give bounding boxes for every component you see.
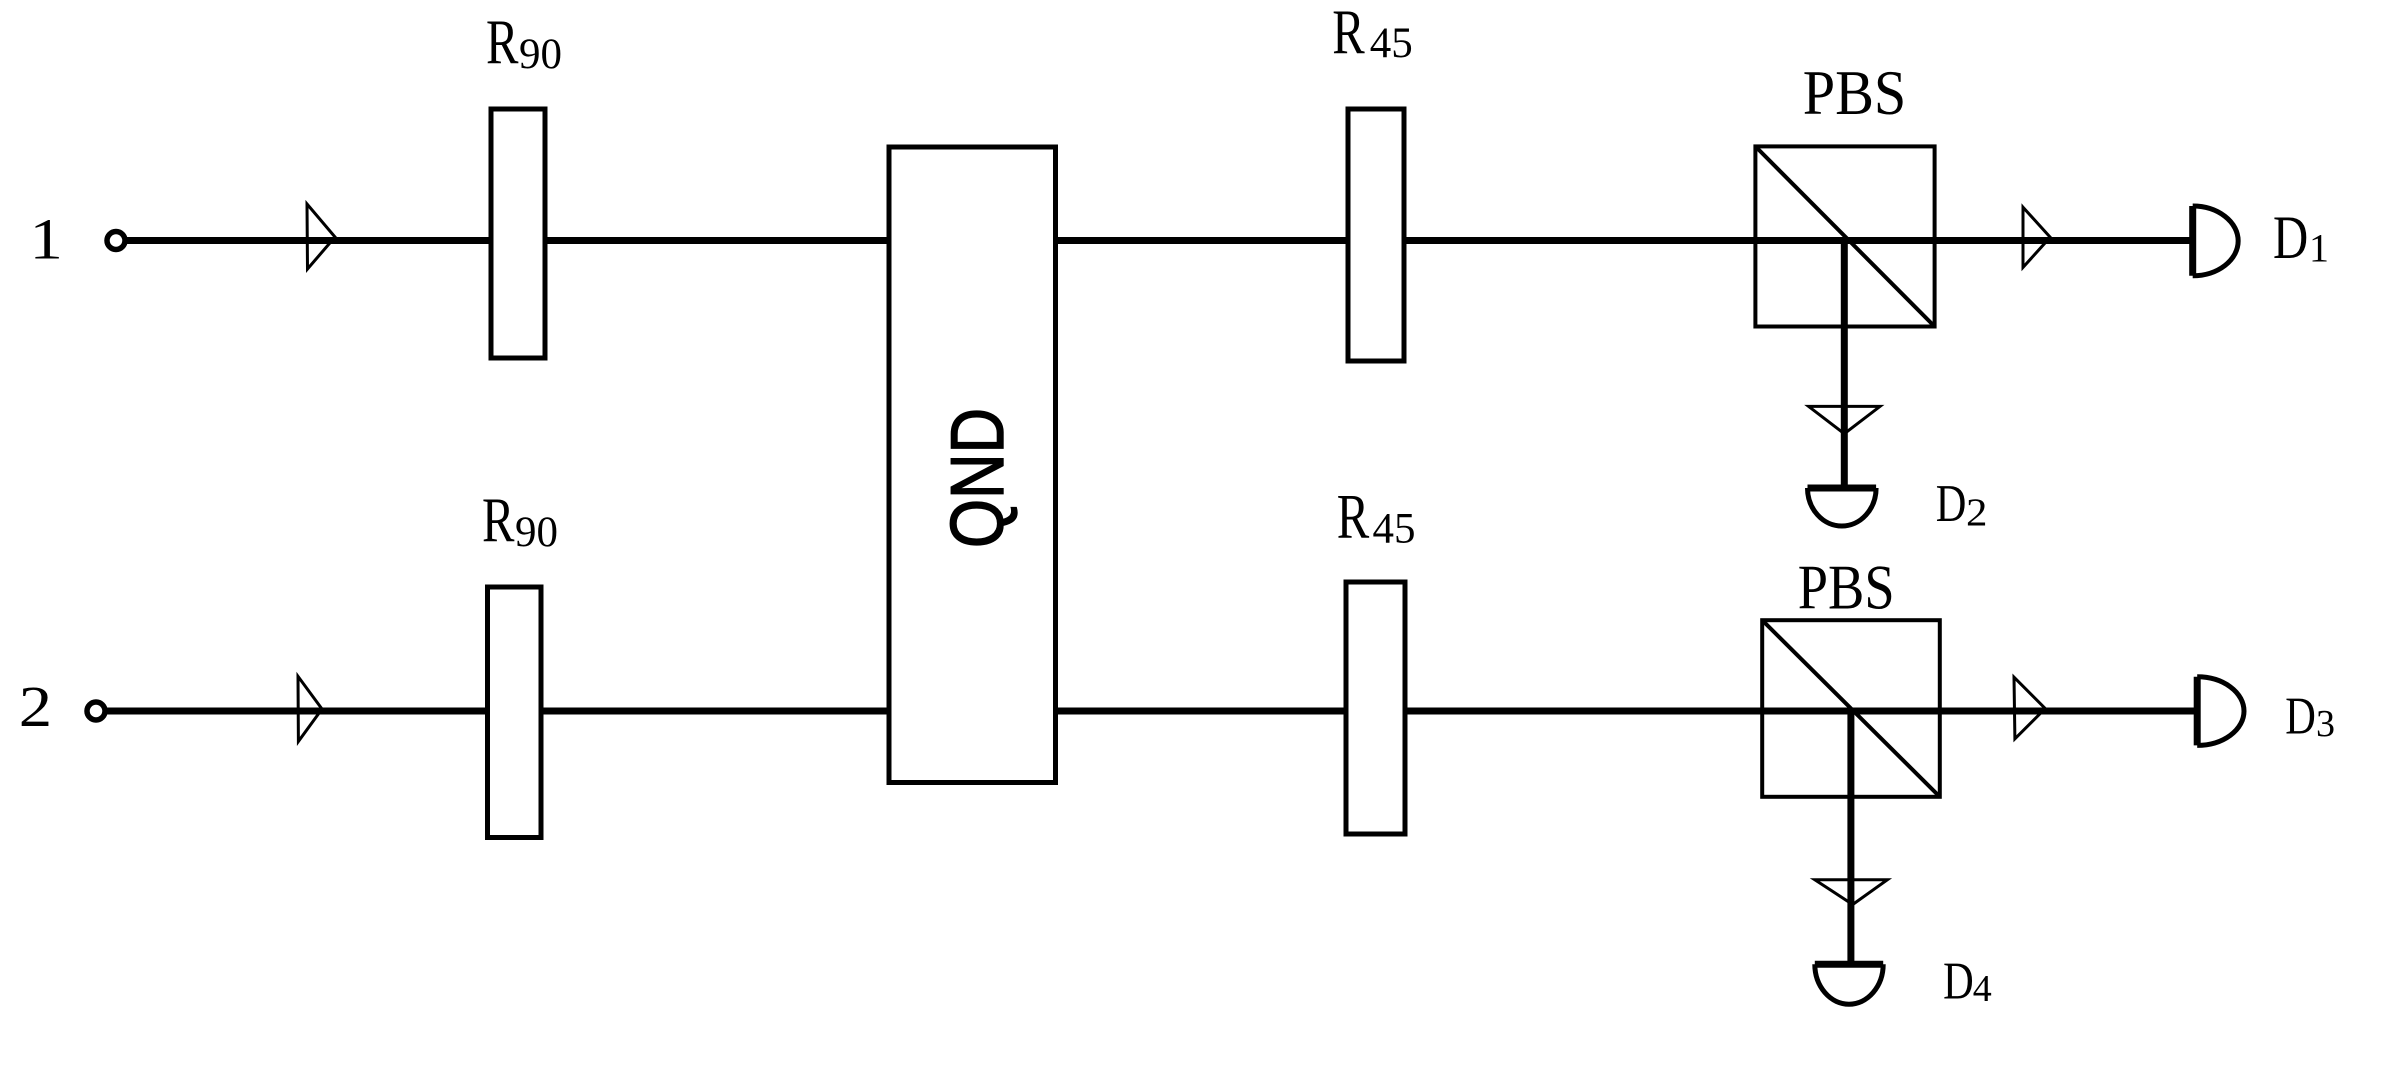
- svg-text:PBS: PBS: [1803, 58, 1907, 129]
- svg-text:2: 2: [19, 674, 52, 739]
- label D3: [2285, 687, 2335, 746]
- label R90 top: [486, 7, 562, 78]
- svg-text:D: D: [1936, 475, 1967, 534]
- label R45 bottom: [1337, 482, 1416, 553]
- svg-text:D: D: [2285, 687, 2316, 746]
- arrow down to D2: [1809, 406, 1880, 433]
- arrow on beam 1 after PBS: [2023, 207, 2050, 267]
- node: input port 2 circle: [87, 702, 105, 720]
- arrow on beam 1 input: [307, 204, 335, 269]
- arrow on beam 2 input: [298, 676, 322, 741]
- wire: beam line 2: [107, 708, 2197, 715]
- rotator R90 bottom rectangle: [488, 587, 542, 838]
- rotator R90 top rectangle: [491, 109, 545, 358]
- svg-text:QND: QND: [935, 408, 1019, 548]
- svg-text:2: 2: [1966, 490, 1987, 534]
- rotator R45 top rectangle: [1348, 109, 1404, 361]
- beamsplitter PBS2 square: [1762, 620, 1940, 797]
- label R45 top: [1332, 0, 1412, 68]
- arrow on beam 2 after PBS: [2014, 677, 2045, 739]
- label D4: [1943, 952, 1992, 1011]
- arrow down to D4: [1815, 880, 1888, 905]
- node: input port 1 circle: [107, 232, 125, 250]
- svg-text:3: 3: [2316, 703, 2335, 745]
- detector D4 (flat top, dome below): [1815, 964, 1883, 1004]
- svg-text:4: 4: [1973, 968, 1992, 1010]
- svg-text:R: R: [1332, 0, 1365, 68]
- svg-text:90: 90: [519, 31, 562, 78]
- detector D2 (flat top, dome below): [1808, 488, 1877, 526]
- wire: PBS2 reflected vertical line to D4: [1847, 711, 1854, 963]
- beamsplitter PBS1 square: [1755, 146, 1934, 326]
- QND box: [889, 147, 1056, 783]
- rotator R45 bottom rectangle: [1346, 582, 1405, 834]
- svg-text:R: R: [1337, 482, 1370, 553]
- svg-text:45: 45: [1370, 20, 1413, 67]
- svg-text:PBS: PBS: [1798, 551, 1895, 622]
- wire: PBS1 reflected vertical line to D2: [1841, 241, 1848, 487]
- wire: beam line 1: [126, 237, 2193, 244]
- label R90 bottom: [482, 485, 558, 556]
- svg-text:45: 45: [1373, 506, 1416, 553]
- svg-text:90: 90: [515, 509, 558, 556]
- label D1: [2273, 204, 2329, 271]
- svg-text:1: 1: [2309, 226, 2329, 271]
- detector D1 (flat left, dome right): [2193, 206, 2238, 276]
- detector D3 (flat left, dome right): [2197, 677, 2244, 746]
- svg-text:R: R: [486, 7, 519, 78]
- label D2: [1936, 475, 1988, 534]
- svg-text:1: 1: [30, 207, 63, 272]
- svg-text:R: R: [482, 485, 515, 556]
- PBS2 diagonal: [1762, 620, 1940, 797]
- svg-text:D: D: [1943, 952, 1974, 1011]
- svg-text:D: D: [2273, 204, 2308, 271]
- PBS1 diagonal: [1755, 146, 1934, 326]
